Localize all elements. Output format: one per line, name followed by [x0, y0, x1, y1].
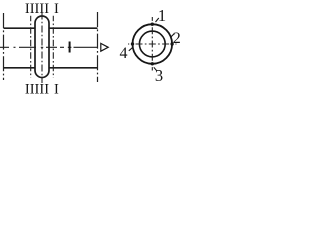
svg-text:IIIII: IIIII	[25, 82, 49, 98]
svg-text:3: 3	[155, 66, 163, 85]
svg-text:IIIII: IIIII	[25, 1, 49, 17]
axis tick marker	[69, 42, 71, 53]
end dash line right	[97, 12, 99, 82]
svg-text:I: I	[54, 82, 59, 98]
ring horizontal centerline	[128, 43, 177, 45]
axis centerline horizontal	[0, 46, 98, 48]
svg-text:1: 1	[158, 6, 166, 25]
contact dot left	[131, 42, 134, 45]
roller outline (stadium)	[35, 16, 49, 78]
motion arrow (open head)	[101, 43, 108, 51]
outer ring	[133, 24, 173, 64]
flank dash line right	[52, 16, 54, 78]
leader to label 2	[171, 34, 174, 37]
roller vertical centerline	[41, 13, 43, 84]
contact dot right	[170, 42, 173, 45]
svg-text:4: 4	[120, 45, 128, 62]
leader to label 1	[156, 18, 159, 22]
tally marks top "IIIII I"	[25, 1, 59, 17]
rail bottom line	[4, 67, 98, 69]
contact dot top	[151, 23, 154, 26]
leader to label 4	[129, 47, 133, 51]
ring vertical centerline	[151, 17, 153, 71]
tally marks bottom "IIIII I"	[25, 82, 59, 98]
svg-text:I: I	[54, 1, 59, 17]
flank dash line left	[30, 16, 32, 78]
rail top line	[4, 27, 98, 29]
svg-text:2: 2	[173, 30, 181, 47]
inner ring	[139, 31, 165, 57]
leader to label 3	[154, 67, 157, 71]
contact dot bottom	[151, 62, 154, 65]
end dash line left	[3, 13, 5, 80]
